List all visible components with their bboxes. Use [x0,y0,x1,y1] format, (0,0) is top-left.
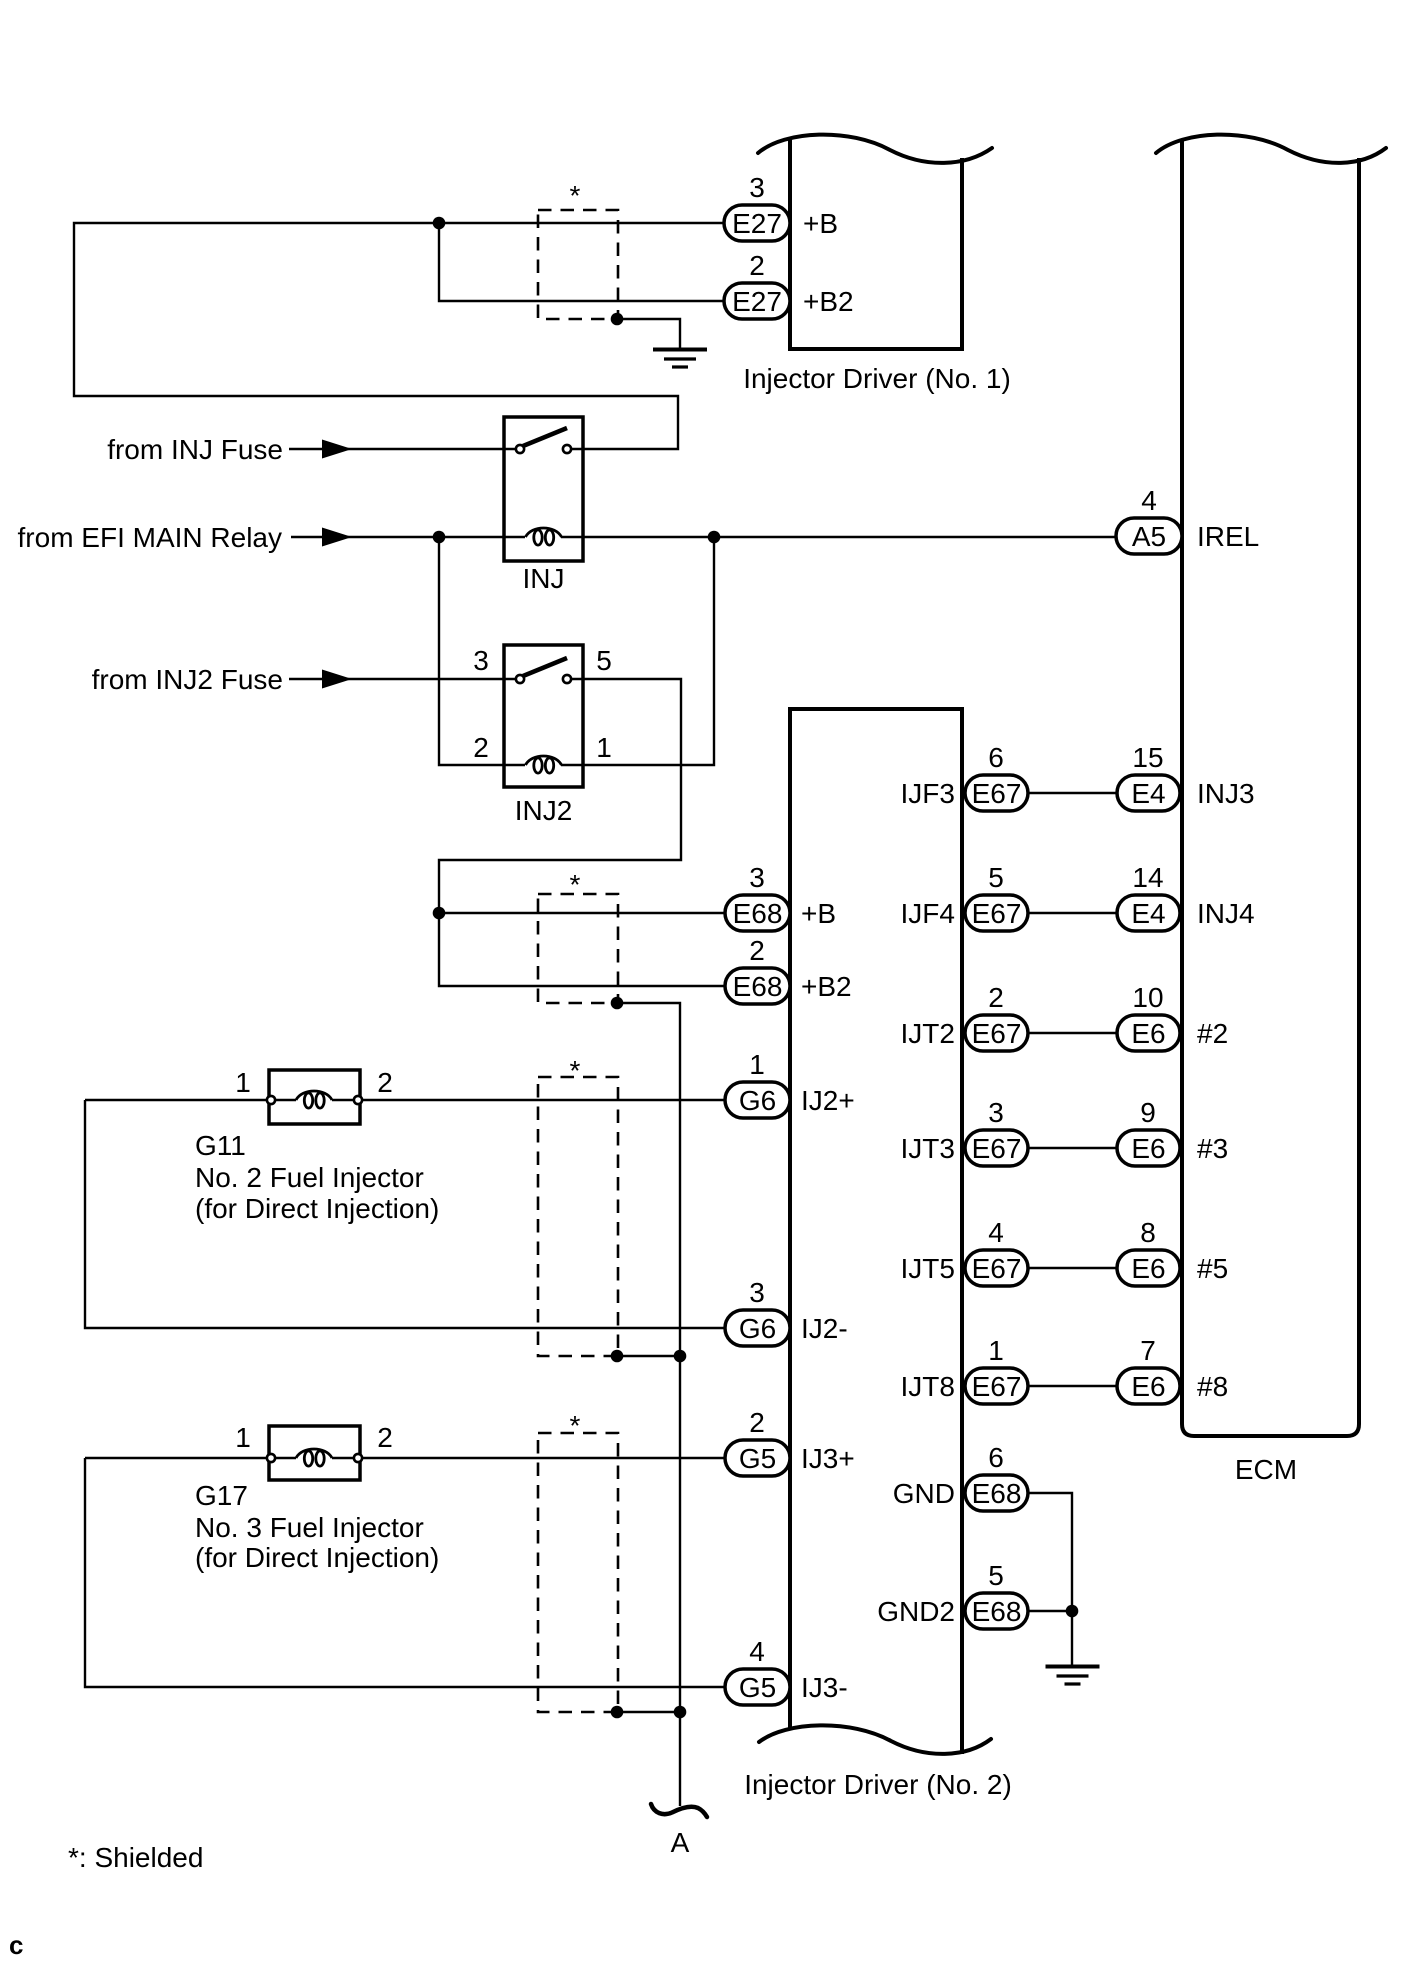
relay INJ2 switch blade [523,658,567,676]
svg-text:3: 3 [473,645,489,676]
wire G11 No.2 fuel injector circuit to G6 IJ2+ and IJ2- [85,1100,725,1328]
pin oval E67 IJF3 (pin 6) [965,775,1028,811]
svg-text:INJ3: INJ3 [1197,778,1255,809]
svg-text:Injector Driver (No. 1): Injector Driver (No. 1) [743,363,1011,394]
svg-text:G5: G5 [739,1443,776,1474]
svg-text:IJT3: IJT3 [901,1133,955,1164]
svg-text:+B: +B [803,208,838,239]
svg-text:*: * [570,180,581,211]
relay INJ2 contact circles [516,675,524,683]
svg-text:*: * [570,869,581,900]
wire from INJ2 Fuse into INJ2 relay contact 3 [289,678,516,680]
svg-text:E67: E67 [972,1253,1022,1284]
svg-text:+B2: +B2 [803,286,854,317]
svg-text:E68: E68 [972,1478,1022,1509]
svg-text:(for Direct Injection): (for Direct Injection) [195,1193,439,1224]
svg-text:*: * [570,1410,581,1441]
svg-text:IJ2+: IJ2+ [801,1085,855,1116]
node shield 3 drain junction [611,1350,624,1363]
node shield 4 drain junction [611,1706,624,1719]
svg-text:2: 2 [749,935,765,966]
node shield 1 drain junction [611,313,624,326]
wire G17 No.3 fuel injector circuit to G5 IJ3+ and IJ3- [85,1458,725,1687]
svg-text:IJT8: IJT8 [901,1371,955,1402]
wire E67 to ECM at y=1268 [1028,1267,1117,1269]
svg-text:E6: E6 [1131,1253,1165,1284]
pin oval E67 IJF4 (pin 5) [965,895,1028,931]
svg-text:1: 1 [235,1067,251,1098]
svg-text:E68: E68 [733,898,783,929]
relay INJ2 box [504,645,583,787]
component Injector Driver (No.1) wavy top [758,135,992,163]
arrowhead from INJ Fuse [322,440,352,459]
svg-text:E27: E27 [732,208,782,239]
svg-text:from EFI MAIN Relay: from EFI MAIN Relay [18,522,282,553]
pin oval E4 INJ4 (pin 14) [1117,895,1180,931]
shielded cable 4 (dashed) for IJ3 [538,1433,618,1712]
svg-text:E67: E67 [972,1018,1022,1049]
node junction on +B wire [433,217,446,230]
svg-text:6: 6 [988,742,1004,773]
pin oval G5 IJ3+ (pin 2) [725,1440,790,1476]
svg-text:E4: E4 [1131,898,1165,929]
pin oval G6 IJ2- (pin 3) [725,1310,790,1346]
svg-text:A5: A5 [1132,521,1166,552]
relay INJ contact circles [516,445,524,453]
arrowhead from EFI MAIN Relay [322,528,352,547]
svg-text:No. 2 Fuel Injector: No. 2 Fuel Injector [195,1162,424,1193]
node shield 3 bus junction [674,1350,687,1363]
arrowhead from INJ2 Fuse [322,670,352,689]
ground symbol (injector driver ground) [1046,1667,1100,1685]
node junction EFI MAIN relay wire / INJ2 coil left [433,531,446,544]
pin oval G5 IJ3- (pin 4) [725,1669,790,1705]
svg-text:IJT2: IJT2 [901,1018,955,1049]
wire shield 1 drain to ground [617,319,680,350]
pin oval E27 +B (pin 3) [724,205,790,241]
svg-text:A: A [671,1827,690,1858]
svg-text:E6: E6 [1131,1018,1165,1049]
pin oval G6 IJ2+ (pin 1) [725,1082,790,1118]
svg-text:#3: #3 [1197,1133,1228,1164]
svg-text:IJ3+: IJ3+ [801,1443,855,1474]
svg-text:5: 5 [988,862,1004,893]
wire INJ2 relay coil pins 2 and 1 [439,537,714,765]
node junction +B wire at E68 [433,907,446,920]
svg-text:3: 3 [749,1277,765,1308]
component ECM wavy top [1156,135,1386,163]
ground symbol (shield 1 drain) [653,350,707,368]
wire GND / GND2 to ground [1028,1493,1072,1666]
wire E67 to ECM at y=913 [1028,912,1117,914]
pin oval E67 IJT8 (pin 1) [965,1368,1028,1404]
pin oval E6 #5 (pin 8) [1117,1250,1180,1286]
shielded cable 2 (dashed) for E68 +B/+B2 [538,894,618,1003]
svg-text:GND2: GND2 [877,1596,955,1627]
svg-text:+B2: +B2 [801,971,852,1002]
pin oval E6 #2 (pin 10) [1117,1015,1180,1051]
wire E67 to ECM at y=793 [1028,792,1117,794]
svg-text:9: 9 [1140,1097,1156,1128]
injector G11 box [269,1070,360,1124]
svg-text:E6: E6 [1131,1133,1165,1164]
svg-text:4: 4 [988,1217,1004,1248]
svg-text:8: 8 [1140,1217,1156,1248]
svg-text:15: 15 [1132,742,1163,773]
svg-text:10: 10 [1132,982,1163,1013]
svg-text:G11: G11 [195,1130,246,1161]
svg-text:2: 2 [749,250,765,281]
pin oval E68 +B2 (pin 2) [725,968,790,1004]
svg-text:#2: #2 [1197,1018,1228,1049]
svg-text:14: 14 [1132,862,1163,893]
svg-text:3: 3 [988,1097,1004,1128]
wire from INJ Fuse into INJ relay contact 3 [289,448,516,450]
relay INJ switch blade [523,428,567,446]
svg-text:E67: E67 [972,898,1022,929]
injector G17 pin circles [267,1454,275,1462]
wire shield drain bus down to node A [617,1003,680,1806]
node junction GND2 / ground [1066,1605,1079,1618]
svg-text:2: 2 [749,1407,765,1438]
wire from INJ2 relay contact 5 down and to Injector Driver No.2 +B / +B2 (E68) [439,679,725,986]
svg-text:3: 3 [749,172,765,203]
relay INJ2 coil [526,756,562,773]
pin oval A5 IREL (pin 4) [1116,518,1182,554]
svg-text:INJ: INJ [523,563,565,594]
pin oval E68 +B (pin 3) [725,895,790,931]
svg-text:E67: E67 [972,1371,1022,1402]
node A break squiggle [651,1804,707,1817]
pin oval E6 #8 (pin 7) [1117,1368,1180,1404]
svg-text:4: 4 [1141,485,1157,516]
pin oval E67 IJT3 (pin 3) [965,1130,1028,1166]
svg-text:E67: E67 [972,778,1022,809]
wire from EFI MAIN Relay through INJ relay coil to ECM IREL (A5 pin 4) [291,536,1116,538]
svg-text:GND: GND [893,1478,955,1509]
svg-text:1: 1 [235,1422,251,1453]
svg-text:1: 1 [988,1335,1004,1366]
svg-text:#8: #8 [1197,1371,1228,1402]
svg-text:from INJ2 Fuse: from INJ2 Fuse [92,664,283,695]
svg-text:IJ2-: IJ2- [801,1313,848,1344]
svg-text:5: 5 [988,1560,1004,1591]
relay INJ coil [526,528,562,545]
pin oval E68 GND (pin 6) [965,1475,1028,1511]
svg-text:E27: E27 [732,286,782,317]
svg-text:*: * [570,1055,581,1086]
pin oval E27 +B2 (pin 2) [724,283,790,319]
svg-text:(for Direct Injection): (for Direct Injection) [195,1542,439,1573]
node shield 2 drain junction [611,997,624,1010]
component Injector Driver (No.1) box [790,137,962,349]
injector G17 box [269,1426,360,1480]
svg-text:5: 5 [596,645,612,676]
svg-text:E4: E4 [1131,778,1165,809]
component Injector Driver (No.2) box [790,709,962,1754]
svg-text:+B: +B [801,898,836,929]
svg-text:E6: E6 [1131,1371,1165,1402]
wire E67 to ECM at y=1148 [1028,1147,1117,1149]
svg-text:ECM: ECM [1235,1454,1297,1485]
injector G11 pin circles [267,1096,275,1104]
svg-text:INJ4: INJ4 [1197,898,1255,929]
svg-text:IJF4: IJF4 [901,898,955,929]
svg-text:*: Shielded: *: Shielded [68,1842,203,1873]
svg-text:E67: E67 [972,1133,1022,1164]
pin oval E6 #3 (pin 9) [1117,1130,1180,1166]
svg-text:No. 3 Fuel Injector: No. 3 Fuel Injector [195,1512,424,1543]
svg-text:#5: #5 [1197,1253,1228,1284]
svg-text:G5: G5 [739,1672,776,1703]
svg-text:E68: E68 [972,1596,1022,1627]
wire E67 to ECM at y=1386 [1028,1385,1117,1387]
svg-text:IJ3-: IJ3- [801,1672,848,1703]
svg-text:2: 2 [377,1422,393,1453]
svg-text:from INJ Fuse: from INJ Fuse [107,434,283,465]
svg-text:Injector Driver (No. 2): Injector Driver (No. 2) [744,1769,1012,1800]
svg-text:c: c [9,1930,23,1960]
shielded cable 3 (dashed) for IJ2 [538,1077,618,1356]
relay INJ box [504,417,583,561]
svg-text:6: 6 [988,1442,1004,1473]
svg-text:IJT5: IJT5 [901,1253,955,1284]
node shield 4 bus junction [674,1706,687,1719]
svg-text:G6: G6 [739,1313,776,1344]
pin oval E67 IJT2 (pin 2) [965,1015,1028,1051]
svg-text:4: 4 [749,1636,765,1667]
svg-text:7: 7 [1140,1335,1156,1366]
injector G11 coil [296,1091,332,1108]
svg-text:G17: G17 [195,1480,248,1511]
svg-text:2: 2 [473,732,489,763]
wire branch to E27 +B2 (pin 2) [439,223,724,301]
pin oval E4 INJ3 (pin 15) [1117,775,1180,811]
pin oval E67 IJT5 (pin 4) [965,1250,1028,1286]
wire from INJ relay contact 5 to Injector Driver No.1 +B (E27 pin 3) [74,223,724,449]
svg-text:INJ2: INJ2 [515,795,573,826]
svg-text:E68: E68 [733,971,783,1002]
wire E67 to ECM at y=1033 [1028,1032,1117,1034]
svg-text:G6: G6 [739,1085,776,1116]
component Injector Driver (No.2) wavy bottom [759,1725,991,1754]
node junction EFI MAIN relay wire / INJ2 pin 1 [708,531,721,544]
shielded cable 1 (dashed) for E27 +B/+B2 [538,210,618,319]
svg-text:2: 2 [377,1067,393,1098]
svg-text:1: 1 [596,732,612,763]
svg-text:3: 3 [749,862,765,893]
injector G17 coil [296,1449,332,1466]
svg-text:2: 2 [988,982,1004,1013]
pin oval E68 GND2 (pin 5) [965,1593,1028,1629]
component ECM box [1182,140,1359,1436]
svg-text:IJF3: IJF3 [901,778,955,809]
svg-text:1: 1 [749,1049,765,1080]
svg-text:IREL: IREL [1197,521,1259,552]
